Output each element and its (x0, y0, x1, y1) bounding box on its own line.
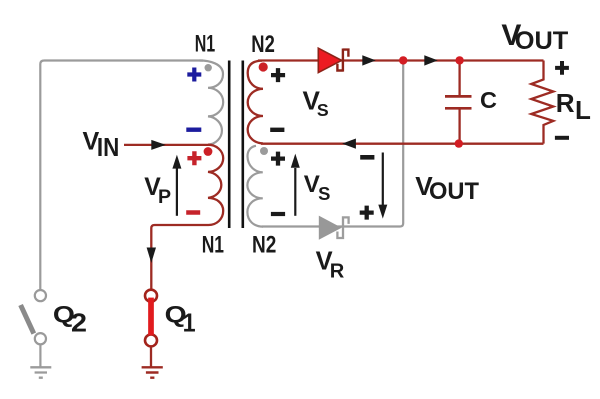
black minus at RL bottom (555, 136, 569, 140)
gray polarity dot primary top (205, 64, 212, 71)
black minus secondary top (270, 128, 284, 132)
svg-text:P: P (158, 186, 171, 208)
red polarity dot primary lower (204, 147, 213, 156)
Q1 ground (142, 367, 163, 377)
top red wire from secondary through diode to RL corner (258, 59, 544, 61)
blue plus primary top (187, 68, 201, 82)
red return wire (261, 143, 544, 145)
Q2 switch bottom circle (35, 333, 46, 344)
wire: left gray rail from Q2 up and across top (40, 61, 203, 291)
VOUT measurement arrow down (382, 153, 384, 206)
Q2 switch top circle (35, 290, 46, 301)
arrow before capacitor junction (424, 55, 438, 65)
capacitor C leads (458, 61, 460, 144)
transformer core (229, 61, 243, 229)
red polarity dot secondary top (259, 62, 268, 71)
VP measurement arrow up (176, 169, 178, 216)
black plus secondary top (271, 68, 285, 82)
primary winding N1 upper gray section (200, 61, 224, 145)
junction dot at capacitor bottom (455, 139, 463, 147)
black plus at RL top (555, 61, 569, 75)
Q2 ground (30, 367, 51, 377)
junction dot at capacitor top (455, 56, 463, 64)
svg-text:N2: N2 (252, 233, 276, 259)
VS measurement arrow up (lower) (294, 168, 296, 216)
black plus vout measure (360, 206, 374, 220)
svg-text:S: S (318, 183, 330, 204)
svg-text:N1: N1 (202, 233, 224, 259)
svg-text:S: S (317, 100, 329, 120)
red minus primary lower (186, 210, 200, 215)
svg-text:R: R (330, 261, 345, 283)
black minus secondary lower (271, 212, 285, 216)
Q1 closed bar (148, 298, 154, 336)
bottom gray wire through VR with corner up to top junction (262, 61, 403, 227)
svg-text:C: C (480, 87, 497, 113)
diode D cathode bar with hooks (337, 49, 348, 72)
Q2 wire to ground (39, 345, 41, 367)
diode D red schottky (318, 48, 341, 72)
svg-text:IN: IN (97, 134, 119, 162)
svg-text:OUT: OUT (429, 178, 479, 205)
svg-text:R: R (556, 88, 575, 118)
gray polarity dot secondary lower (260, 147, 268, 155)
blue minus primary (186, 127, 201, 131)
VIN wire (124, 144, 209, 146)
svg-text:OUT: OUT (515, 27, 569, 55)
red plus primary lower (187, 151, 201, 165)
left arrow on return wire (342, 139, 356, 149)
secondary winding N2 upper red section (248, 61, 263, 144)
Q1 switch top circle (145, 290, 157, 302)
Q1 switch bottom circle (145, 334, 157, 346)
black plus secondary lower (271, 152, 285, 166)
svg-text:L: L (575, 95, 591, 125)
VR diode bar with hooks (337, 216, 348, 239)
secondary winding N2 lower gray section (247, 146, 263, 227)
VR diode gray schottky triangle (319, 216, 342, 240)
resistor RL zigzag (531, 61, 553, 144)
arrow after diode (362, 55, 376, 65)
capacitor C plates (445, 96, 472, 108)
arrow down to Q1 (147, 248, 156, 264)
svg-text:2: 2 (71, 308, 87, 338)
Q2 open lever (21, 305, 34, 334)
svg-text:N2: N2 (251, 32, 274, 58)
black minus vout measure (360, 155, 374, 160)
VIN arrow (151, 140, 166, 150)
junction dot at gray branch (399, 56, 407, 64)
primary winding N1 lower red section (151, 145, 223, 289)
svg-text:1: 1 (183, 308, 196, 338)
Q1 wire to ground (150, 347, 152, 367)
svg-text:N1: N1 (195, 32, 216, 58)
